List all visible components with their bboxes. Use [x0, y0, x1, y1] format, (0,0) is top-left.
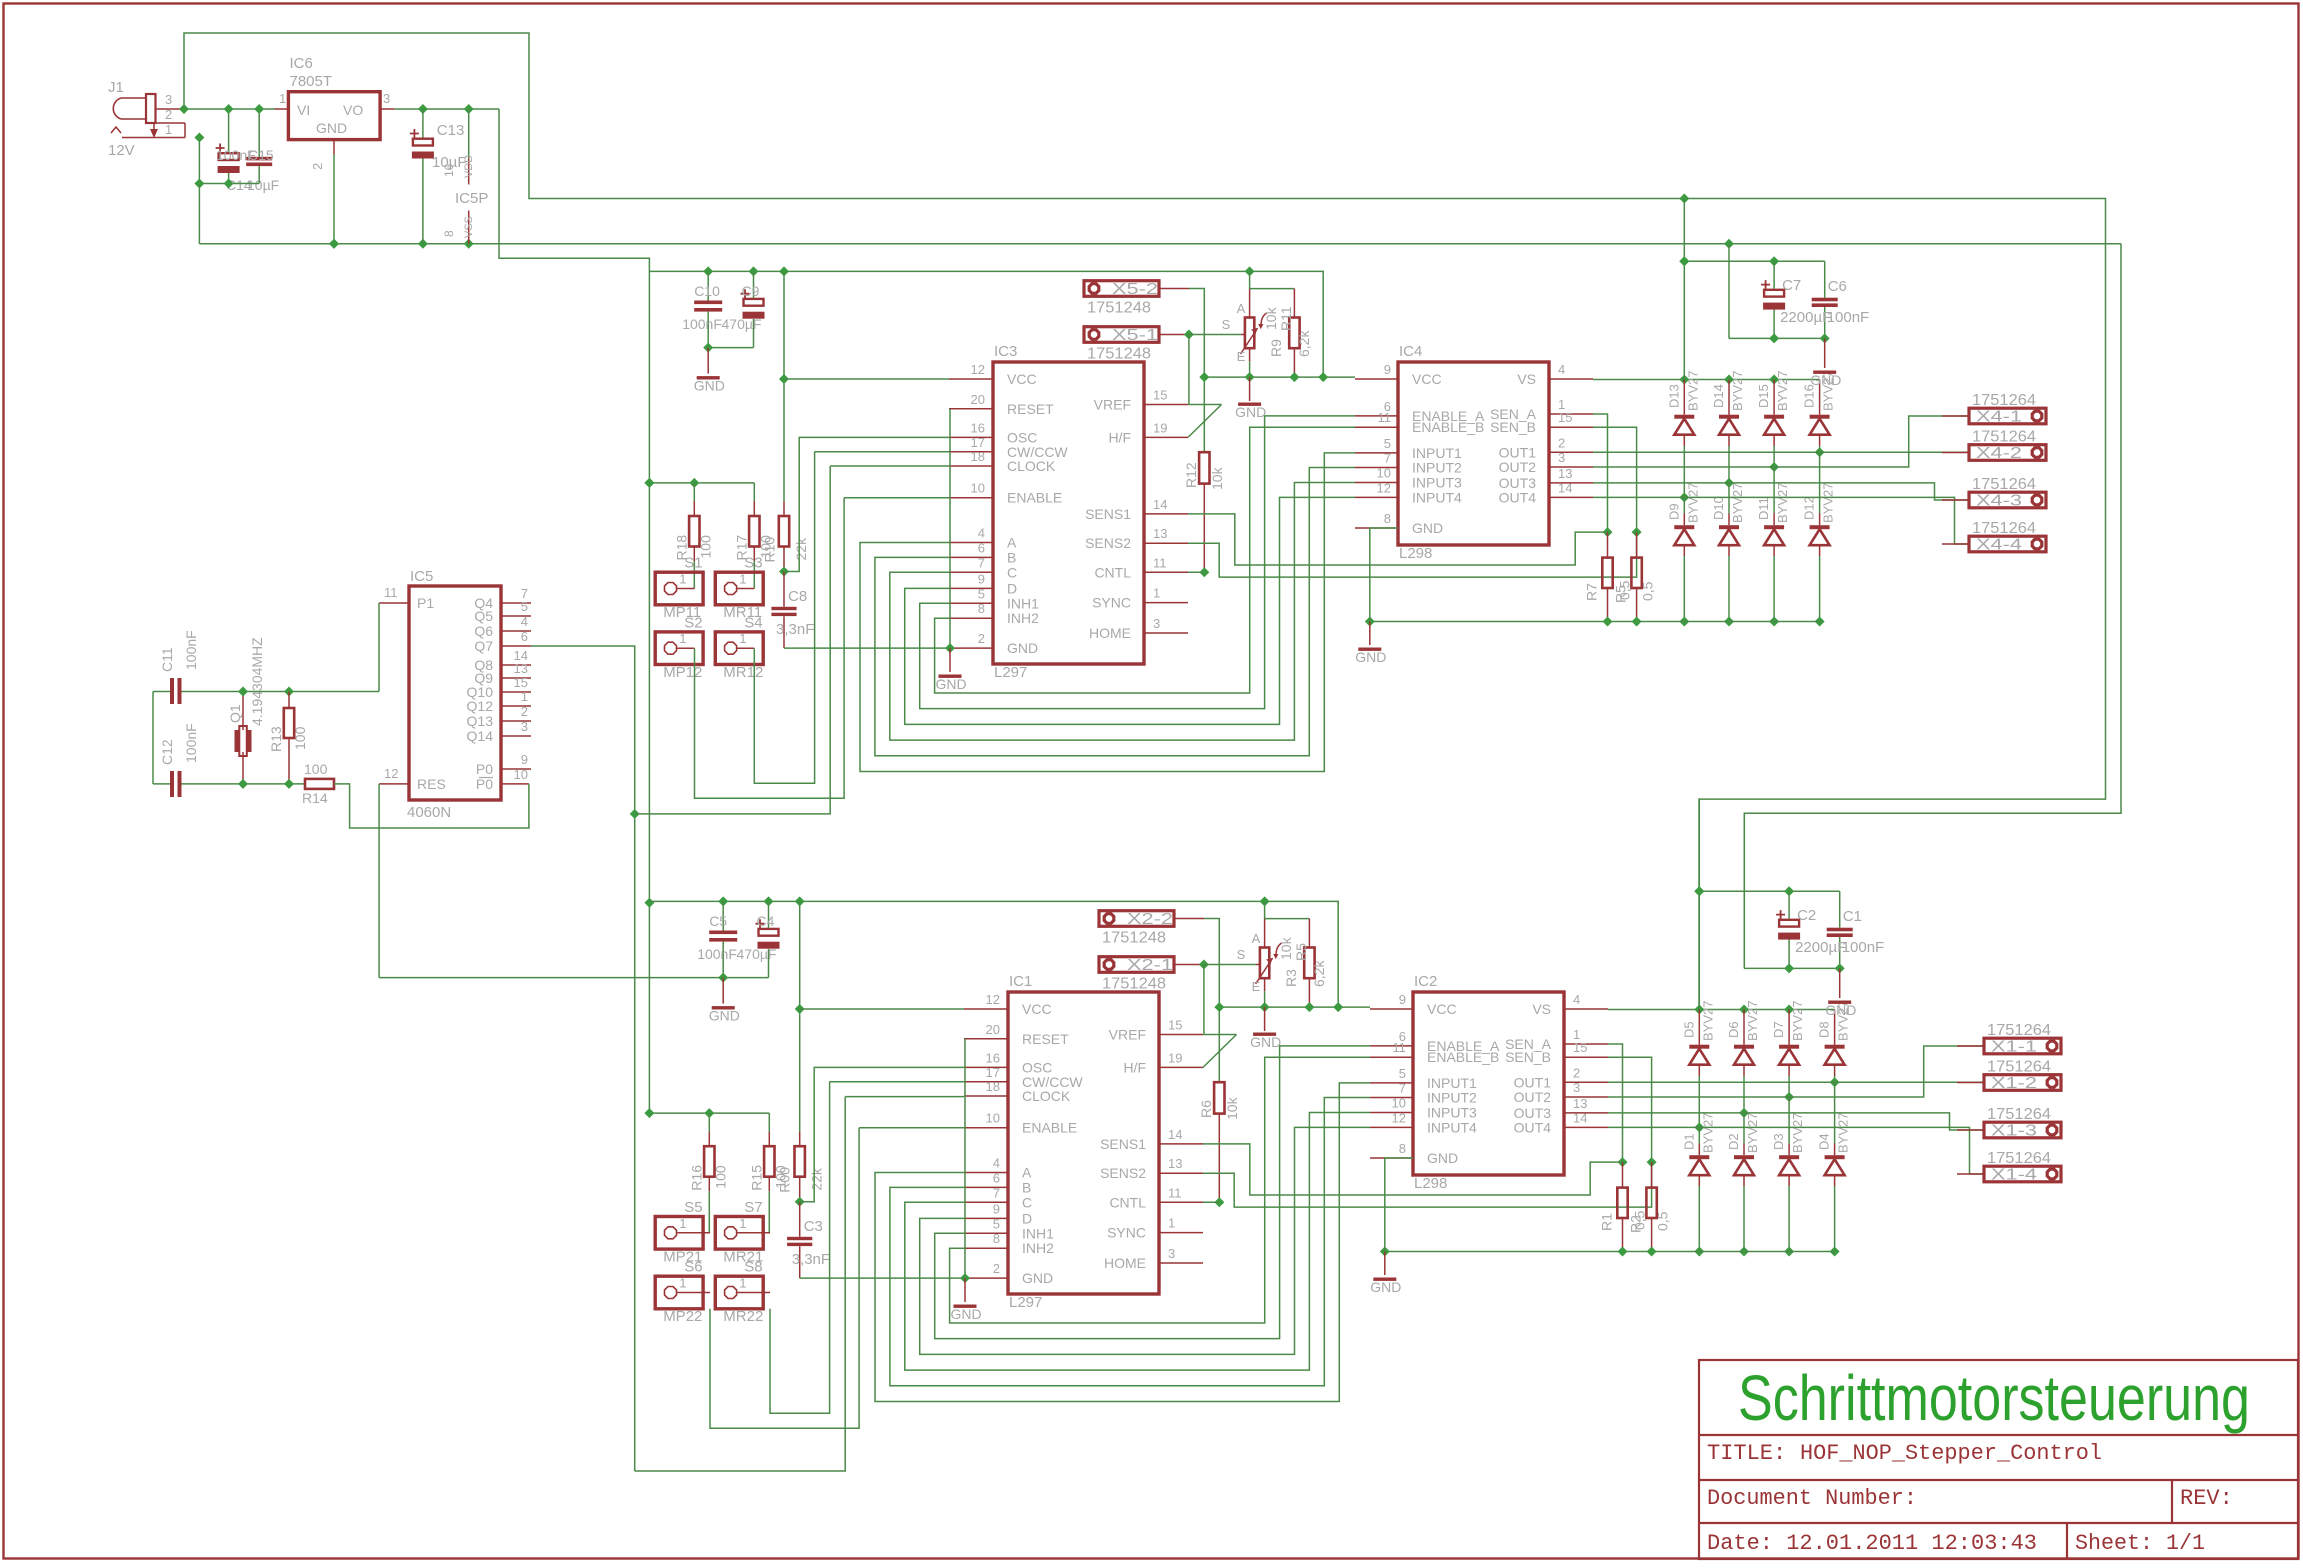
- svg-text:GND: GND: [1250, 1034, 1281, 1050]
- svg-text:X1-2: X1-2: [1991, 1075, 2037, 1092]
- capacitor C3: [787, 1197, 812, 1278]
- svg-text:D: D: [1022, 1210, 1032, 1226]
- connector X1-3: [1957, 1106, 2061, 1140]
- svg-text:INPUT2: INPUT2: [1412, 460, 1462, 476]
- svg-text:2: 2: [978, 631, 985, 646]
- svg-text:11: 11: [1378, 410, 1392, 425]
- svg-text:2: 2: [1573, 1065, 1580, 1080]
- IC4 pin 11 ENABLE_B: [1355, 410, 1484, 435]
- diode D1: [1689, 1127, 1709, 1256]
- svg-text:6: 6: [978, 540, 985, 555]
- wire X2-2 to R12: [1204, 919, 1219, 1083]
- svg-text:X1-4: X1-4: [1991, 1167, 2037, 1184]
- IC3 pin 12 VCC: [949, 362, 1037, 387]
- svg-text:13: 13: [514, 661, 528, 676]
- wire GND drop to caps ch2: [1743, 813, 1745, 968]
- wire VS bus ch1: [1593, 375, 1820, 385]
- IC3 pin 3 HOME: [1089, 616, 1188, 641]
- svg-text:15: 15: [514, 675, 528, 690]
- svg-text:18: 18: [971, 449, 985, 464]
- capacitor C2: [1776, 891, 1800, 968]
- diode D5: [1689, 1010, 1709, 1133]
- label R5: [1293, 943, 1327, 987]
- svg-text:BYV27: BYV27: [1730, 483, 1745, 523]
- svg-text:10: 10: [514, 767, 528, 782]
- svg-text:B: B: [1022, 1179, 1031, 1195]
- IC3 pin 16 OSC: [949, 420, 1037, 445]
- svg-text:1: 1: [1153, 586, 1160, 601]
- svg-text:14: 14: [1573, 1110, 1587, 1125]
- IC1 pin 6 B: [964, 1170, 1031, 1195]
- svg-text:1: 1: [679, 572, 686, 587]
- svg-text:MR22: MR22: [723, 1308, 763, 1325]
- svg-text:OUT2: OUT2: [1514, 1089, 1552, 1105]
- IC2 pin 1 SEN_A: [1505, 1027, 1608, 1052]
- label D3: [1771, 1113, 1805, 1153]
- svg-text:ENABLE: ENABLE: [1007, 490, 1062, 506]
- pad S2 MP12: [655, 614, 703, 681]
- IC4 pin 1 SEN_A: [1490, 397, 1593, 422]
- ground under C1: [1825, 1001, 1856, 1019]
- wire CNTL: [1188, 571, 1204, 573]
- svg-text:470µF: 470µF: [737, 946, 777, 962]
- wire GND drop to caps ch1: [1728, 244, 1730, 339]
- IC2 pin 8 GND: [1370, 1141, 1458, 1166]
- label pot R3: [1237, 931, 1299, 994]
- IC2 pin 9 VCC: [1370, 992, 1457, 1017]
- svg-text:BYV27: BYV27: [1700, 1113, 1715, 1153]
- pad S5 MP21: [655, 1199, 710, 1266]
- label C7 C6: [1780, 277, 1869, 326]
- svg-text:D2: D2: [1726, 1133, 1741, 1150]
- svg-text:GND: GND: [1022, 1270, 1053, 1286]
- svg-text:VS: VS: [1532, 1001, 1551, 1017]
- svg-text:C: C: [1022, 1194, 1032, 1210]
- svg-text:S2: S2: [684, 614, 702, 631]
- wire CLOCK from trunk: [635, 1097, 964, 1471]
- svg-text:3,3nF: 3,3nF: [792, 1251, 830, 1268]
- svg-text:14: 14: [1153, 497, 1167, 512]
- svg-text:4: 4: [993, 1156, 1000, 1171]
- svg-text:BYV27: BYV27: [1790, 1001, 1805, 1041]
- label D9: [1666, 483, 1700, 523]
- resistor R11: [1289, 289, 1299, 378]
- svg-text:7: 7: [993, 1185, 1000, 1200]
- connector X4-2: [1942, 429, 2046, 463]
- wire VREF link: [1189, 335, 1222, 405]
- svg-text:INPUT3: INPUT3: [1427, 1105, 1477, 1121]
- wire caps left link: [152, 692, 154, 784]
- svg-text:1751248: 1751248: [1102, 976, 1166, 993]
- IC5 pin 14 Q8: [474, 648, 531, 673]
- IC4 pin 6 ENABLE_A: [1355, 399, 1485, 424]
- IC3 pin 10 ENABLE: [949, 481, 1062, 506]
- svg-text:D9: D9: [1666, 503, 1681, 520]
- IC1 pin 5 INH1: [964, 1216, 1054, 1241]
- svg-text:TITLE:: TITLE:: [1707, 1441, 1786, 1466]
- svg-text:19: 19: [1153, 420, 1167, 435]
- svg-text:A: A: [1022, 1165, 1032, 1181]
- svg-text:4.194304MHZ: 4.194304MHZ: [249, 637, 265, 726]
- IC1 pin 19 H/F: [1123, 1050, 1203, 1075]
- svg-text:1751264: 1751264: [1972, 520, 2036, 537]
- svg-text:1: 1: [679, 1276, 686, 1291]
- crystal Q1: [235, 692, 252, 784]
- power pins IC5P: [442, 109, 488, 244]
- svg-text:470µF: 470µF: [722, 316, 762, 332]
- wire VCC node row ch1: [1199, 372, 1355, 382]
- svg-text:P1: P1: [417, 595, 434, 611]
- svg-text:BYV27: BYV27: [1685, 371, 1700, 411]
- IC2 pin 6 ENABLE_A: [1370, 1029, 1500, 1054]
- IC4 pin 7 INPUT2: [1355, 451, 1462, 476]
- svg-text:Q13: Q13: [467, 713, 494, 729]
- op-amp? no: IC IC3 L297 box: [993, 343, 1144, 681]
- wire SEN_B ch2: [1608, 1057, 1657, 1167]
- svg-text:A: A: [1237, 301, 1246, 316]
- diode D4: [1825, 1082, 1845, 1256]
- svg-text:D8: D8: [1817, 1021, 1832, 1038]
- label 22k: [809, 1167, 825, 1191]
- wire SEN_B ch1: [1593, 427, 1642, 537]
- svg-text:Q1: Q1: [227, 704, 243, 723]
- ground under L298 ch2: [1370, 1278, 1401, 1296]
- svg-text:VO: VO: [343, 102, 363, 118]
- label R15: [748, 1165, 792, 1193]
- IC5 pin 7 Q4: [474, 586, 531, 611]
- resistor R13: [284, 692, 294, 784]
- svg-text:1: 1: [1168, 1216, 1175, 1231]
- svg-text:5: 5: [521, 599, 528, 614]
- IC5 pin 12 RES: [379, 766, 446, 792]
- svg-text:3: 3: [165, 92, 172, 107]
- wire INH1 to L298 ch1: [920, 416, 1355, 709]
- wire pot top rail: [1265, 901, 1310, 918]
- wire 5V trunk: [644, 271, 654, 1113]
- IC4 pin 10 INPUT3: [1355, 466, 1462, 491]
- node VCC branch (ch1): [779, 374, 949, 384]
- svg-text:C4: C4: [757, 913, 775, 929]
- IC3 pin 4 A: [949, 526, 1017, 551]
- wire OUT1 to X1-2: [1608, 1081, 1984, 1083]
- svg-text:15: 15: [1573, 1040, 1587, 1055]
- wire cap gnd row ch1: [1729, 333, 1830, 368]
- regulator IC6 7805T: [288, 55, 380, 140]
- svg-text:9: 9: [1399, 992, 1406, 1007]
- label C13: [432, 122, 467, 171]
- title row REV: [2180, 1486, 2233, 1511]
- diode D7: [1779, 1010, 1799, 1103]
- svg-text:HOME: HOME: [1089, 625, 1131, 641]
- svg-text:100: 100: [304, 761, 328, 777]
- resistor R1: [1617, 1162, 1627, 1251]
- resistor R15: [764, 1113, 774, 1233]
- svg-text:BYV27: BYV27: [1745, 1113, 1760, 1153]
- title block frame: [1699, 1360, 2298, 1559]
- svg-text:BYV27: BYV27: [1836, 1113, 1851, 1153]
- label C10 C9: [682, 283, 761, 332]
- svg-text:100nF: 100nF: [183, 723, 199, 763]
- label D2: [1726, 1113, 1760, 1153]
- IC3 pin 20 RESET: [949, 392, 1054, 417]
- svg-text:GND: GND: [694, 378, 725, 394]
- svg-text:BYV27: BYV27: [1775, 371, 1790, 411]
- svg-text:22k: 22k: [809, 1167, 825, 1191]
- wire INH2 to L298 ch1: [935, 427, 1355, 693]
- IC2 pin 14 OUT4: [1514, 1110, 1608, 1135]
- IC4 pin 8 GND: [1355, 511, 1443, 536]
- svg-text:13: 13: [1168, 1156, 1182, 1171]
- svg-text:X4-3: X4-3: [1976, 493, 2022, 510]
- svg-text:SENS1: SENS1: [1100, 1136, 1146, 1152]
- svg-text:A: A: [1007, 535, 1017, 551]
- diode D14: [1719, 380, 1739, 488]
- wire GND bus right down: [1744, 244, 2121, 966]
- svg-text:C10: C10: [694, 283, 720, 299]
- IC4 pin 2 OUT1: [1499, 435, 1593, 460]
- wire osc bottom: [238, 779, 305, 789]
- svg-text:GND: GND: [1355, 649, 1386, 665]
- IC5 pin 11 P1: [379, 585, 434, 611]
- IC1 pin 11 CNTL: [1109, 1185, 1203, 1210]
- svg-text:4060N: 4060N: [407, 804, 451, 821]
- svg-text:19: 19: [1168, 1050, 1182, 1065]
- label R13: [268, 726, 308, 752]
- svg-text:Q6: Q6: [474, 623, 493, 639]
- wire 12V drop ch2: [1694, 799, 1704, 1009]
- label D16: [1802, 371, 1836, 411]
- resistor 22k R10: [779, 271, 789, 571]
- svg-text:3: 3: [1153, 616, 1160, 631]
- svg-text:5: 5: [993, 1216, 1000, 1231]
- pad S8 MR22: [715, 1259, 770, 1326]
- svg-text:VSS: VSS: [463, 216, 475, 238]
- wire SEN_A ch1: [1593, 414, 1613, 537]
- svg-text:BYV27: BYV27: [1745, 1001, 1760, 1041]
- label C5 C4: [697, 913, 776, 962]
- svg-text:R13: R13: [268, 726, 284, 752]
- IC2 pin 5 INPUT1: [1370, 1066, 1477, 1091]
- J1 pin 2 wire: [156, 107, 186, 123]
- svg-text:4: 4: [978, 526, 985, 541]
- wire INH2 to L298 ch2: [950, 1057, 1370, 1323]
- IC1 pin 17 CW/CCW: [964, 1065, 1083, 1090]
- svg-text:8: 8: [993, 1231, 1000, 1246]
- connector X1-2: [1957, 1059, 2061, 1093]
- capacitor C6: [1812, 261, 1838, 338]
- svg-text:1751248: 1751248: [1102, 930, 1166, 947]
- svg-text:GND: GND: [936, 676, 967, 692]
- svg-text:1751264: 1751264: [1987, 1059, 2051, 1076]
- diode D13: [1674, 380, 1694, 503]
- wire OUT3 to X1-3: [1608, 1113, 1984, 1130]
- svg-text:1751264: 1751264: [1987, 1022, 2051, 1039]
- ground under C5: [709, 1006, 740, 1024]
- label R7: [1584, 583, 1600, 601]
- ground under C10: [694, 376, 725, 394]
- IC4 pin 14 OUT4: [1499, 480, 1593, 505]
- wire X5-1 node: [1184, 330, 1194, 340]
- svg-text:R5: R5: [1293, 943, 1309, 961]
- svg-text:ENABLE_B: ENABLE_B: [1412, 419, 1484, 435]
- label D11: [1756, 483, 1790, 523]
- wire pot E down: [1249, 361, 1251, 377]
- svg-text:INPUT4: INPUT4: [1412, 489, 1462, 505]
- wire OUT1 to X4-2: [1593, 451, 1969, 453]
- IC3 pin 18 CLOCK: [949, 449, 1056, 474]
- wire pot top rail: [1250, 271, 1295, 288]
- IC2 pin 15 SEN_B: [1505, 1040, 1608, 1065]
- IC6 pin 2 GND stub: [310, 140, 334, 170]
- svg-text:INPUT4: INPUT4: [1427, 1119, 1477, 1135]
- wire GND pin ch1: [945, 643, 955, 672]
- svg-text:C9: C9: [742, 283, 760, 299]
- wire L298 GND ch2: [1385, 1158, 1413, 1275]
- svg-text:OUT4: OUT4: [1499, 489, 1537, 505]
- potentiometer R9: [1241, 289, 1267, 362]
- IC1 pin 9 D: [964, 1201, 1032, 1226]
- wire S4 to CW/CCW: [754, 452, 949, 784]
- wire VREF link: [1204, 965, 1237, 1035]
- svg-text:100nF: 100nF: [1827, 309, 1870, 326]
- wire osc top: [238, 687, 379, 697]
- svg-text:REV:: REV:: [2180, 1486, 2233, 1511]
- svg-text:VCC: VCC: [1412, 371, 1442, 387]
- svg-text:8: 8: [978, 601, 985, 616]
- label R2 0,5: [1628, 1210, 1671, 1233]
- resistor R5 0.5: [1631, 532, 1641, 621]
- svg-text:C1: C1: [1843, 908, 1862, 925]
- wire RESET tie ch2: [964, 1039, 966, 1278]
- svg-text:SENS1: SENS1: [1085, 506, 1131, 522]
- svg-text:R14: R14: [302, 790, 328, 806]
- diode D8: [1825, 1010, 1845, 1088]
- wire C to L298 ch2: [905, 1113, 1370, 1371]
- svg-text:S: S: [1222, 317, 1231, 332]
- capacitor C10: [694, 271, 722, 347]
- wire SEN_A ch2: [1608, 1044, 1628, 1167]
- svg-text:BYV27: BYV27: [1700, 1001, 1715, 1041]
- wire VCC rail (ch1): [649, 266, 1323, 377]
- svg-text:3,3nF: 3,3nF: [776, 621, 814, 638]
- wire pot E down: [1264, 991, 1266, 1007]
- wire GND main bus: [199, 239, 2121, 249]
- svg-text:IC5P: IC5P: [455, 190, 488, 207]
- wire VCC node row ch2: [1214, 1002, 1370, 1012]
- svg-text:1751264: 1751264: [1987, 1106, 2051, 1123]
- svg-text:13: 13: [1573, 1096, 1587, 1111]
- wire D to L298 ch2: [920, 1127, 1370, 1354]
- diode D10: [1719, 483, 1739, 627]
- svg-text:C15: C15: [248, 147, 274, 163]
- svg-text:1: 1: [739, 1216, 746, 1231]
- ground under IC1: [951, 1305, 982, 1323]
- svg-text:P0: P0: [476, 761, 493, 777]
- IC1 pin 14 SENS1: [1100, 1127, 1203, 1152]
- J1 pin 1 wire: [122, 122, 185, 138]
- resistor R18: [689, 483, 699, 589]
- wire wiper link: [1204, 964, 1256, 966]
- svg-text:5: 5: [978, 586, 985, 601]
- connector X1-1: [1957, 1022, 2061, 1056]
- svg-text:C11: C11: [159, 647, 175, 672]
- svg-text:X4-2: X4-2: [1976, 445, 2022, 462]
- wire resistor bus (ch1): [644, 478, 754, 488]
- diode D2: [1734, 1113, 1754, 1257]
- label D4: [1817, 1113, 1851, 1153]
- IC5 pin 13 Q9: [474, 661, 531, 686]
- svg-text:S4: S4: [744, 614, 762, 631]
- IC2 pin 4 VS: [1532, 992, 1608, 1017]
- diode D3: [1779, 1097, 1799, 1257]
- label C2 C1: [1795, 907, 1884, 956]
- svg-text:D7: D7: [1771, 1021, 1786, 1038]
- svg-text:RES: RES: [417, 776, 446, 792]
- title row Sheet: [2075, 1531, 2205, 1556]
- IC5 pin 2 Q13: [467, 704, 531, 729]
- ground under L298 ch1: [1355, 648, 1386, 666]
- svg-text:GND: GND: [316, 120, 347, 136]
- svg-text:16: 16: [986, 1050, 1000, 1065]
- IC1 pin 4 A: [964, 1156, 1032, 1181]
- IC2 pin 11 ENABLE_B: [1370, 1040, 1499, 1065]
- wire OUT3 to X4-3: [1593, 483, 1969, 500]
- wire Q7 clock trunk: [531, 646, 640, 1471]
- svg-text:C7: C7: [1782, 277, 1801, 294]
- svg-text:VCC: VCC: [1007, 371, 1037, 387]
- IC3 pin 14 SENS1: [1085, 497, 1188, 522]
- wire H/F diagonal: [1203, 1035, 1237, 1068]
- supply symbol 12V: [108, 123, 158, 159]
- svg-text:17: 17: [986, 1065, 1000, 1080]
- svg-text:1: 1: [739, 631, 746, 646]
- svg-text:MR12: MR12: [723, 664, 763, 681]
- wire A to L298 ch1: [860, 453, 1355, 772]
- svg-text:R3: R3: [1283, 969, 1299, 987]
- capacitor C15: [246, 104, 272, 184]
- svg-text:4: 4: [1573, 992, 1580, 1007]
- svg-text:C3: C3: [804, 1218, 823, 1235]
- svg-text:H/F: H/F: [1123, 1059, 1146, 1075]
- wire INH1 to L298 ch2: [935, 1046, 1370, 1339]
- resistor 22k R00: [795, 901, 805, 1201]
- wire RESET tie ch1: [949, 409, 951, 648]
- IC3 pin 7 C: [949, 555, 1017, 580]
- svg-text:R11: R11: [1278, 306, 1294, 331]
- wire S6 to ENABLE: [710, 1128, 964, 1429]
- resistor R14: [302, 761, 334, 806]
- label R5 0,5: [1613, 580, 1656, 603]
- label D10: [1711, 483, 1745, 523]
- IC3 pin 19 H/F: [1108, 420, 1188, 445]
- IC2 pin 13 OUT3: [1514, 1096, 1608, 1121]
- svg-text:Schrittmotorsteuerung: Schrittmotorsteuerung: [1738, 1362, 2250, 1434]
- wire 5V feed down: [499, 109, 649, 271]
- svg-text:ENABLE: ENABLE: [1022, 1120, 1077, 1136]
- svg-text:D15: D15: [1756, 384, 1771, 408]
- wire GND bus ch1: [1365, 617, 1820, 627]
- IC1 pin 13 SENS2: [1100, 1156, 1203, 1181]
- pad S6 MP22: [655, 1259, 710, 1326]
- svg-text:1751264: 1751264: [1972, 429, 2036, 446]
- resistor R12: [1199, 452, 1209, 577]
- label R18: [673, 535, 713, 561]
- wire SENS1 ch1: [1188, 514, 1608, 565]
- svg-text:H/F: H/F: [1108, 429, 1131, 445]
- svg-text:Document Number:: Document Number:: [1707, 1486, 1917, 1511]
- svg-text:X4-1: X4-1: [1976, 409, 2022, 426]
- capacitor C12: [153, 771, 243, 797]
